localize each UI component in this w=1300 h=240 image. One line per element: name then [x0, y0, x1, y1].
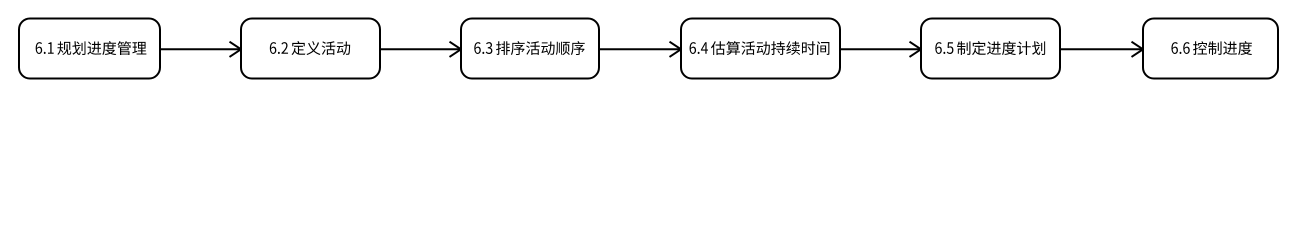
label text 6.1 规划进度管理 — [36, 41, 147, 55]
arrow from box 5 to box 6 — [1060, 42, 1143, 57]
arrow from box 3 to box 4 — [599, 42, 681, 57]
label text 6.3 排序活动顺序 — [474, 41, 584, 55]
process box 6.1 规划进度管理 — [19, 19, 160, 79]
process box 6.5 制定进度计划 — [921, 19, 1060, 79]
label text 6.4 估算活动持续时间 — [690, 41, 830, 55]
arrow from box 2 to box 3 — [380, 42, 461, 57]
process box 6.6 控制进度 — [1143, 19, 1278, 79]
process box 6.2 定义活动 — [241, 19, 380, 79]
arrow from box 4 to box 5 — [840, 42, 921, 57]
label text 6.6 控制进度 — [1171, 41, 1252, 55]
label text 6.5 制定进度计划 — [935, 41, 1045, 55]
label text 6.2 定义活动 — [270, 41, 350, 55]
process box 6.4 估算活动持续时间 — [681, 19, 840, 79]
arrow from box 1 to box 2 — [160, 42, 241, 57]
process box 6.3 排序活动顺序 — [461, 19, 599, 79]
